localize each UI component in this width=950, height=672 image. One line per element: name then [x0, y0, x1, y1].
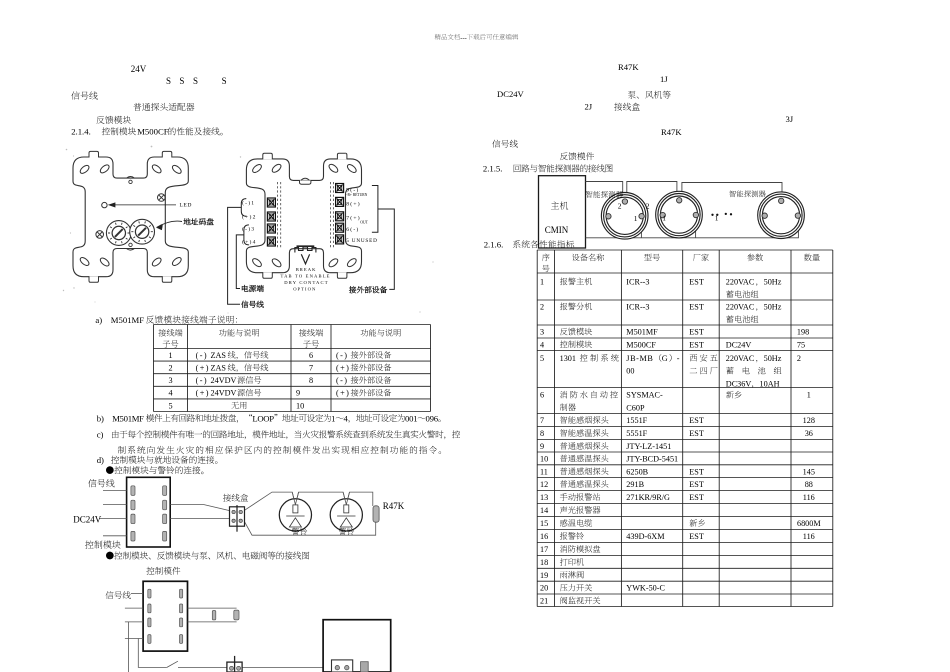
svg-text:-: -	[677, 354, 680, 363]
svg-text:(+)2: (+)2	[242, 214, 256, 221]
svg-text:2: 2	[540, 303, 544, 312]
module right terminal pin 6	[163, 500, 167, 510]
svg-text:ZAS: ZAS	[211, 364, 227, 373]
svg-text:EST: EST	[689, 467, 704, 476]
terminating resistor R47K	[373, 506, 379, 522]
svg-text:TAB TO ENABLE: TAB TO ENABLE	[281, 274, 331, 279]
svg-text:(+): (+)	[336, 389, 350, 398]
svg-text:6: 6	[434, 413, 439, 423]
svg-text:4: 4	[540, 340, 544, 349]
svg-text:M501MF: M501MF	[626, 328, 658, 337]
module 2 right terminal pin 8	[180, 635, 183, 644]
svg-text:a): a)	[95, 315, 102, 325]
wire: signal line 1 into module	[103, 490, 127, 492]
svg-text:4: 4	[168, 389, 172, 398]
svg-text:9: 9	[296, 389, 300, 398]
bracket: terminals 3-4 to power wire	[244, 225, 249, 245]
svg-text:(+)4: (+)4	[242, 239, 256, 246]
control module box (pump wiring figure)	[143, 581, 187, 651]
svg-text:271KR/9R/G: 271KR/9R/G	[626, 493, 670, 502]
contact element small	[212, 611, 216, 620]
continuation dots between detectors	[711, 213, 732, 216]
svg-text:d): d)	[97, 455, 104, 465]
svg-text:13: 13	[540, 493, 548, 502]
svg-text:M500CF: M500CF	[137, 127, 169, 137]
svg-text:10: 10	[540, 455, 548, 464]
table: M501MF terminal description	[154, 325, 431, 412]
wire: DC24V + into module	[99, 517, 127, 519]
svg-text:EST: EST	[689, 278, 704, 287]
svg-text:YWK-50-C: YWK-50-C	[626, 584, 665, 593]
wire: top loop bus from host to detector 1	[586, 182, 799, 238]
svg-text:F: F	[139, 413, 144, 423]
module left terminal pin 1	[131, 486, 135, 496]
bracket: terminals 6-9 group 接外部设备	[372, 186, 378, 233]
svg-text:2.1.5.: 2.1.5.	[483, 164, 503, 174]
svg-text:C60P: C60P	[626, 403, 645, 412]
svg-text:3: 3	[540, 328, 544, 337]
svg-text:S: S	[166, 76, 171, 86]
module 2 right terminal pin 6	[180, 604, 183, 613]
svg-text:c): c)	[97, 430, 104, 440]
svg-text:M501MF: M501MF	[111, 315, 144, 325]
switch blade	[167, 661, 178, 667]
control module M500CF mounting plate (right scanned figure)	[246, 153, 361, 278]
svg-text:1: 1	[168, 351, 172, 360]
svg-text:(+): (+)	[196, 364, 210, 373]
svg-text:6(-): 6(-)	[346, 226, 359, 233]
svg-text:CMIN: CMIN	[545, 225, 569, 235]
wire: power drop to 电源端 label	[236, 235, 244, 289]
svg-text:OPTION: OPTION	[293, 286, 316, 291]
mounting screw left	[96, 231, 104, 239]
svg-text:DC24V: DC24V	[497, 89, 525, 99]
svg-text:20: 20	[540, 584, 548, 593]
svg-text:291B: 291B	[626, 480, 644, 489]
svg-text:R47K: R47K	[661, 127, 682, 137]
address code rotary dial 2 地址码盘	[130, 219, 155, 244]
svg-text:88: 88	[805, 480, 813, 489]
svg-text:5: 5	[540, 354, 544, 363]
mounting screw top-right	[158, 194, 166, 202]
CJK text layer	[435, 34, 518, 40]
svg-text:50Hz: 50Hz	[764, 303, 782, 312]
wire: V drops onto bell terminals (over circles)	[292, 492, 349, 505]
svg-text:439D-6XM: 439D-6XM	[626, 532, 665, 541]
svg-text:JTY-BCD-5451: JTY-BCD-5451	[626, 455, 678, 464]
wire: into module 2 row 2	[125, 607, 143, 609]
svg-text:JB-MB: JB-MB	[626, 354, 653, 363]
wire: into module 2 row 3 with drop off page	[125, 621, 143, 623]
svg-text:DC24V: DC24V	[73, 515, 102, 525]
svg-text:ICR--3: ICR--3	[626, 278, 649, 287]
wire: module output to junction box (lower)	[170, 517, 229, 519]
svg-text:7: 7	[540, 416, 544, 425]
feedback module M501MF mounting plate (left scanned figure)	[73, 151, 188, 282]
wire: switch to junction box 2	[178, 666, 227, 668]
module right terminal pin 8	[163, 531, 167, 541]
svg-text:75: 75	[797, 340, 805, 349]
svg-text:8: 8	[309, 376, 313, 385]
wire: loop from detector 2 over continuation dots to detector 3	[682, 183, 782, 199]
wire: signal line 2 into module	[103, 504, 127, 506]
svg-text:2: 2	[168, 364, 172, 373]
address code rotary dial 1 地址码盘	[106, 221, 131, 246]
svg-text:128: 128	[803, 416, 815, 425]
svg-text:---: ---	[460, 34, 466, 41]
svg-text:1: 1	[634, 214, 638, 223]
wire: bell bottom return bus to resistor	[245, 522, 376, 536]
svg-text:6: 6	[309, 351, 313, 360]
wire: DC24V - into module	[103, 535, 127, 537]
svg-text:DRY CONTACT: DRY CONTACT	[284, 280, 328, 285]
svg-text:R47K: R47K	[383, 501, 405, 511]
svg-text:19: 19	[540, 571, 548, 580]
svg-text:10AH: 10AH	[760, 379, 780, 388]
junction box 2	[227, 656, 242, 672]
wire: signal line drop to 信号线 label	[228, 207, 242, 304]
svg-text:1: 1	[807, 391, 811, 400]
smart detector 1 智能探测器	[601, 193, 648, 240]
svg-text:EST: EST	[689, 416, 704, 425]
svg-text:1: 1	[662, 214, 666, 223]
svg-text:21: 21	[540, 597, 548, 606]
svg-text:EST: EST	[689, 532, 704, 541]
module left terminal pin 4	[131, 531, 135, 541]
LED indicator hole	[102, 202, 107, 207]
leader curve to 地址码盘 label	[157, 221, 183, 230]
svg-text:50Hz: 50Hz	[764, 354, 782, 363]
svg-text:BREAK: BREAK	[296, 267, 317, 272]
smart detector 3 智能探测器	[758, 192, 805, 239]
svg-text:6250B: 6250B	[626, 467, 648, 476]
svg-text:M500CF: M500CF	[626, 340, 656, 349]
svg-text:DC24V: DC24V	[726, 340, 752, 349]
svg-text:17: 17	[540, 545, 548, 554]
svg-text:50Hz: 50Hz	[764, 278, 782, 287]
svg-text:3: 3	[168, 376, 172, 385]
svg-text:DC36V: DC36V	[726, 379, 752, 388]
svg-text:24VDV: 24VDV	[211, 389, 237, 398]
svg-text:SYSMAC-: SYSMAC-	[626, 391, 663, 400]
module left terminal pin 2	[131, 500, 135, 510]
plate 1 corner screw slots	[79, 163, 183, 267]
svg-text:(-): (-)	[336, 351, 348, 360]
V arrow pointing at breakaway tab	[301, 254, 309, 264]
svg-text:00: 00	[626, 367, 634, 376]
contact element large	[234, 610, 239, 620]
svg-text:11: 11	[540, 467, 548, 476]
bracket: terminals 1-2 to signal wire	[228, 186, 395, 305]
module right terminal pin 7	[163, 514, 167, 524]
svg-text:1: 1	[715, 214, 719, 223]
pump box inner terminal block	[332, 660, 353, 672]
svg-text:18: 18	[540, 558, 548, 567]
svg-text:R47K: R47K	[618, 62, 639, 72]
smart detector 2 智能探测器	[656, 191, 703, 238]
svg-text:15: 15	[540, 519, 548, 528]
wire: module 2 output row 3 to contact pair	[188, 621, 237, 623]
svg-text:12: 12	[540, 480, 548, 489]
module 2 left terminal pin 1	[148, 589, 151, 598]
svg-text:2: 2	[797, 354, 801, 363]
svg-text:EST: EST	[689, 493, 704, 502]
wire: module 2 output row 2 to contact pair	[188, 607, 237, 609]
control module M500CF box (bell wiring figure)	[127, 477, 171, 547]
wire: external device bracket to label	[378, 209, 394, 289]
svg-text:(-): (-)	[196, 376, 208, 385]
svg-text:(-): (-)	[336, 376, 348, 385]
svg-text:220VAC: 220VAC	[726, 303, 755, 312]
plate 1 top/bottom center holes and bumps	[127, 177, 135, 251]
dry contact breakaway tab connector	[295, 246, 316, 252]
svg-text:145: 145	[803, 467, 815, 476]
svg-text:(-): (-)	[196, 351, 208, 360]
module 2 right terminal pin 5	[180, 589, 183, 598]
wire: junction box to bell top bus with drops at each bell	[245, 492, 373, 510]
svg-text:(+): (+)	[336, 364, 350, 373]
svg-text:7: 7	[309, 364, 313, 373]
svg-text:8: 8	[540, 429, 544, 438]
module right terminal pin 5	[163, 486, 167, 496]
plate 2 left terminal screws 1-4	[267, 198, 275, 246]
svg-text:1: 1	[331, 413, 335, 423]
svg-text:198: 198	[797, 328, 809, 337]
wire: module output to junction box (upper)	[170, 505, 229, 511]
svg-text:9: 9	[540, 442, 544, 451]
svg-text:EST: EST	[689, 303, 704, 312]
module 2 left terminal pin 2	[148, 604, 151, 613]
alarm bell 警铃 1	[279, 499, 311, 531]
svg-text:ZAS: ZAS	[211, 351, 227, 360]
plate 2 corner screw slots	[251, 163, 357, 268]
svg-text:10: 10	[296, 401, 304, 410]
svg-text:2J: 2J	[585, 102, 593, 112]
svg-text:1551F: 1551F	[626, 416, 647, 425]
svg-text:4: 4	[343, 413, 348, 423]
wire: into module 2 row 4	[125, 638, 143, 640]
svg-text:6: 6	[540, 391, 544, 400]
junction box 接线盒	[230, 505, 245, 532]
host panel 主机 box	[539, 176, 586, 248]
svg-text:220VAC: 220VAC	[726, 354, 755, 363]
svg-text:5: 5	[168, 401, 172, 410]
svg-text:2: 2	[646, 201, 650, 210]
svg-text:1: 1	[413, 413, 417, 423]
svg-text:8(+): 8(+)	[346, 201, 360, 208]
svg-text:S: S	[193, 76, 198, 86]
pump box gray element	[361, 662, 369, 672]
svg-text:14: 14	[540, 506, 548, 515]
svg-text:6800M: 6800M	[797, 519, 821, 528]
wire: module 2 row 4 down to switch and junction box 2	[138, 639, 167, 668]
pump / fan control box	[323, 620, 391, 672]
table: system equipment list	[537, 250, 833, 607]
svg-text:24VDV: 24VDV	[211, 376, 237, 385]
wire: loop between detector 1 and detector 2	[627, 182, 677, 199]
svg-text:24V: 24V	[131, 64, 147, 74]
wire: detector 2 drop to return bus	[695, 219, 697, 238]
module 2 left terminal pin 4	[148, 635, 151, 644]
svg-text:b): b)	[97, 413, 104, 423]
wire: detector 1 drop to return bus	[640, 219, 642, 238]
svg-text:5 UNUSED: 5 UNUSED	[346, 238, 377, 244]
svg-text:2.1.4.: 2.1.4.	[71, 127, 91, 137]
svg-text:ICR--3: ICR--3	[626, 303, 649, 312]
svg-text:EST: EST	[689, 340, 704, 349]
module 2 left terminal pin 3	[148, 618, 151, 627]
svg-text:OUT: OUT	[360, 220, 368, 224]
svg-text:(+): (+)	[196, 389, 210, 398]
svg-text:S: S	[179, 76, 184, 86]
svg-text:S: S	[222, 76, 227, 86]
svg-text:P: P	[269, 413, 274, 423]
svg-text:220VAC: 220VAC	[726, 278, 755, 287]
svg-text:5551F: 5551F	[626, 429, 647, 438]
svg-text:2.1.6.: 2.1.6.	[484, 240, 504, 250]
svg-text:1301: 1301	[560, 354, 576, 363]
plate 2 inner dashed separation lines	[278, 182, 334, 248]
wire: junction box 2 to pump control box	[242, 666, 323, 668]
svg-text:116: 116	[803, 493, 815, 502]
svg-text:JTY-LZ-1451: JTY-LZ-1451	[626, 442, 671, 451]
LED leader arrow	[109, 203, 176, 207]
module 2 right terminal pin 7	[180, 618, 183, 627]
module left terminal pin 3	[131, 514, 135, 524]
svg-text:(-)3: (-)3	[242, 225, 255, 232]
wire: signal into module 2 row 1	[131, 592, 143, 594]
plate 2 right terminal screws 5-9	[336, 184, 344, 244]
svg-text:EST: EST	[689, 429, 704, 438]
wire: bottom return bus	[586, 218, 799, 237]
svg-text:1J: 1J	[660, 74, 668, 84]
svg-text:EST: EST	[689, 480, 704, 489]
alarm bell 警铃 2	[330, 499, 362, 531]
svg-text:116: 116	[803, 532, 815, 541]
svg-text:3J: 3J	[786, 114, 794, 124]
svg-text:-B+ RETURN: -B+ RETURN	[346, 193, 367, 197]
svg-text:LED: LED	[180, 202, 192, 208]
svg-text:EST: EST	[689, 328, 704, 337]
plate 2 top center locking tab	[300, 178, 311, 184]
svg-text:16: 16	[540, 532, 548, 541]
svg-text:1: 1	[540, 278, 544, 287]
svg-text:7(+): 7(+)	[346, 214, 360, 221]
svg-text:(-)1: (-)1	[242, 200, 255, 207]
svg-text:2: 2	[618, 201, 622, 210]
svg-text:36: 36	[805, 429, 813, 438]
svg-text:G: G	[662, 354, 668, 363]
